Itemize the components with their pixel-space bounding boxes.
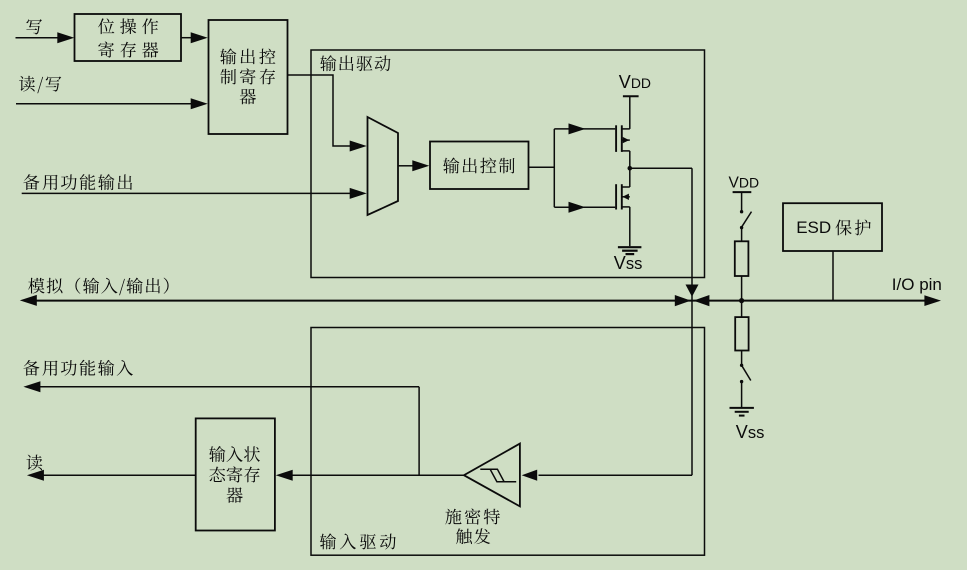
svg-text:Vss: Vss bbox=[736, 422, 765, 442]
svg-text:VDD: VDD bbox=[729, 175, 760, 192]
svg-text:I/O pin: I/O pin bbox=[892, 275, 942, 294]
svg-text:VDD: VDD bbox=[619, 72, 651, 92]
svg-text:ESD: ESD bbox=[796, 218, 831, 237]
svg-text:Vss: Vss bbox=[614, 253, 643, 273]
